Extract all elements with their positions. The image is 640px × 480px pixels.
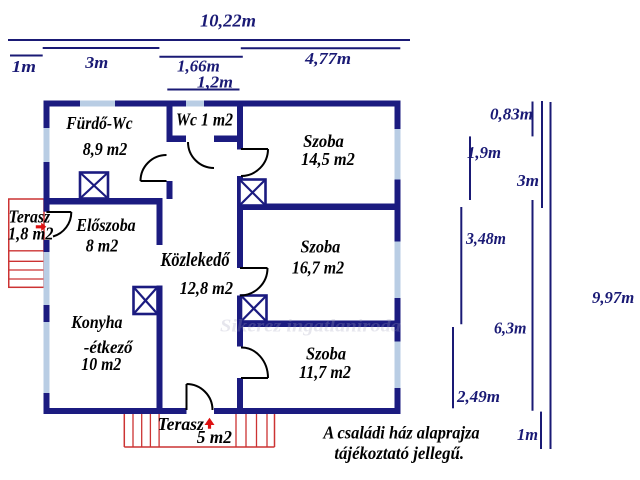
window (left wall, konyha lower) bbox=[44, 322, 50, 393]
interior wall: wc left / fürdő right (upper) bbox=[167, 107, 173, 143]
dimension line 4,77m (top) bbox=[241, 48, 400, 68]
svg-text:1,8 m2: 1,8 m2 bbox=[8, 224, 54, 244]
interior wall: wc bottom left segment bbox=[167, 136, 187, 143]
dimension line 1m (top left) bbox=[10, 56, 43, 77]
window (top wall, fürdő) bbox=[80, 101, 115, 107]
dimension line 3,48m (right side) bbox=[461, 207, 506, 324]
interior wall: corridor right lower mid bbox=[237, 296, 243, 347]
outer wall left bbox=[44, 101, 50, 415]
dimension line 9,97m (right overall) bbox=[551, 102, 635, 449]
terasz 5 m2 red hatched area (bottom) bbox=[124, 414, 274, 447]
svg-text:4,77m: 4,77m bbox=[304, 49, 351, 68]
svg-text:Szoba: Szoba bbox=[303, 131, 344, 151]
svg-text:10 m2: 10 m2 bbox=[81, 354, 121, 374]
svg-text:3m: 3m bbox=[84, 53, 108, 72]
dimension line 1,66m (top) bbox=[159, 57, 242, 76]
window (right wall, szoba 11,7) bbox=[395, 342, 401, 389]
svg-text:8 m2: 8 m2 bbox=[86, 236, 119, 256]
svg-text:Konyha: Konyha bbox=[70, 312, 122, 332]
door szoba 11,7 bbox=[241, 347, 268, 378]
outer wall right bbox=[395, 101, 401, 415]
interior wall: corridor right mid bbox=[237, 176, 243, 268]
window (left wall, konyha upper) bbox=[44, 252, 50, 305]
svg-text:2,49m: 2,49m bbox=[456, 387, 500, 406]
interior wall: fürdő right below door bbox=[167, 181, 173, 199]
outer wall top bbox=[44, 101, 401, 107]
svg-text:1m: 1m bbox=[12, 57, 36, 76]
interior wall: divider szoba 14,5 / 16,7 bbox=[240, 204, 401, 211]
svg-text:3m: 3m bbox=[516, 171, 539, 190]
dimension line 6,3m (right side) bbox=[494, 200, 533, 411]
window (left wall, fürdő) bbox=[44, 128, 50, 162]
svg-text:tájékoztató jellegű.: tájékoztató jellegű. bbox=[334, 443, 464, 463]
svg-text:Szoba: Szoba bbox=[306, 344, 346, 364]
svg-text:0,83m: 0,83m bbox=[490, 105, 533, 124]
window (top wall, wc) bbox=[186, 101, 204, 107]
svg-text:12,8 m2: 12,8 m2 bbox=[180, 278, 233, 298]
svg-text:Előszoba: Előszoba bbox=[75, 215, 135, 235]
door wc (from corridor) bbox=[188, 142, 214, 168]
arrow terasz left entrance bbox=[36, 223, 47, 231]
interior wall: corridor right bottom bbox=[237, 378, 243, 410]
svg-text:16,7 m2: 16,7 m2 bbox=[292, 258, 344, 278]
dimension line 1,9m (right side) bbox=[467, 136, 501, 200]
svg-text:Sikerez ingatlaniroda: Sikerez ingatlaniroda bbox=[220, 316, 401, 336]
svg-text:Szoba: Szoba bbox=[301, 237, 341, 257]
svg-text:Közlekedő: Közlekedő bbox=[160, 249, 231, 271]
svg-text:9,97m: 9,97m bbox=[592, 288, 634, 307]
interior wall: konyha / corridor bbox=[157, 286, 163, 411]
interior wall: előszoba stub bbox=[157, 198, 163, 245]
svg-text:14,5 m2: 14,5 m2 bbox=[301, 149, 355, 169]
chimney box szoba 14,5 bbox=[240, 180, 266, 206]
interior wall: fürdő bottom bbox=[44, 198, 163, 205]
arrow terasz bottom entrance bbox=[205, 418, 215, 429]
door terasz bottom (from corridor) bbox=[187, 384, 213, 410]
dimension line 1,2m (top, underlined label) bbox=[167, 73, 239, 92]
svg-text:1m: 1m bbox=[517, 425, 538, 444]
interior wall: wc bottom right segment bbox=[214, 136, 241, 143]
dimension line 3m (right side) bbox=[516, 101, 542, 208]
terasz 1,8 m2 red hatched area (left) bbox=[9, 199, 44, 287]
dimension line 0,83m (right side) bbox=[490, 102, 533, 137]
window (right wall, szoba 16,7) bbox=[395, 242, 401, 299]
svg-text:Fürdő-Wc: Fürdő-Wc bbox=[65, 113, 132, 133]
dimension line 10,22m (top overall) bbox=[8, 11, 410, 41]
svg-text:1,9m: 1,9m bbox=[467, 143, 501, 162]
dimension line 2,49m (right side) bbox=[453, 327, 500, 408]
svg-text:Wc 1 m2: Wc 1 m2 bbox=[176, 110, 233, 130]
dimension line 3m (top) bbox=[43, 48, 160, 72]
svg-text:3,48m: 3,48m bbox=[465, 229, 506, 248]
interior wall: corridor right upper (wc right) bbox=[237, 107, 243, 150]
svg-text:11,7 m2: 11,7 m2 bbox=[299, 362, 351, 382]
door szoba 16,7 bbox=[240, 268, 268, 296]
svg-text:8,9 m2: 8,9 m2 bbox=[83, 139, 128, 159]
interior wall: divider szoba 16,7 / 11,7 bbox=[237, 321, 401, 328]
door terasz left (to előszoba) bbox=[46, 212, 71, 237]
door szoba 14,5 bbox=[241, 149, 268, 176]
svg-text:6,3m: 6,3m bbox=[494, 319, 527, 338]
window (right wall, szoba 14,5) bbox=[395, 129, 401, 180]
chimney box szoba 16,7 bbox=[241, 296, 267, 322]
svg-text:1,2m: 1,2m bbox=[197, 73, 233, 92]
chimney box konyha bbox=[134, 287, 158, 314]
outer wall bottom bbox=[44, 408, 401, 414]
dimension line 1m (right side bottom) bbox=[517, 412, 541, 449]
door fürdő-wc (from corridor) bbox=[141, 155, 167, 181]
svg-text:10,22m: 10,22m bbox=[200, 11, 256, 31]
svg-text:A családi ház alaprajza: A családi ház alaprajza bbox=[322, 423, 479, 443]
svg-text:5 m2: 5 m2 bbox=[197, 427, 232, 447]
chimney box fürdő bbox=[80, 173, 108, 199]
